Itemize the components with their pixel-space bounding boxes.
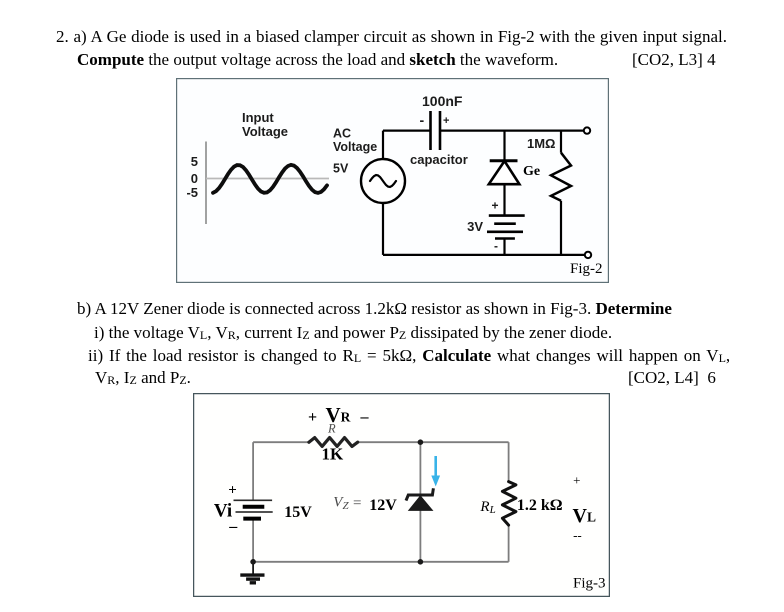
svg-text:+: + — [573, 473, 580, 488]
zener diode triangle — [409, 496, 433, 510]
wire left branch upper — [252, 442, 254, 500]
svg-text:1K: 1K — [322, 445, 345, 464]
ground bars — [240, 575, 264, 583]
svg-text:Input: Input — [242, 110, 274, 125]
zener diode bar — [406, 488, 433, 500]
wire AC source top to rail corner — [382, 131, 384, 159]
svg-text:AC: AC — [333, 127, 351, 141]
wire resistor branch bottom — [560, 201, 562, 255]
input signal zero line — [206, 178, 329, 180]
output terminal bottom — [585, 252, 591, 258]
wire diode to battery — [503, 184, 505, 216]
AC source V1 circle — [361, 159, 405, 203]
wire load branch bottom — [508, 525, 510, 562]
wire diode branch top — [503, 131, 505, 161]
svg-text:3V: 3V — [467, 219, 483, 234]
fig-3 frame — [194, 394, 610, 597]
capacitor C1 plates — [431, 111, 441, 150]
wire left branch lower — [252, 519, 254, 562]
svg-text:R: R — [327, 421, 336, 435]
AC source sine symbol — [370, 175, 396, 187]
svg-text:12V: 12V — [369, 497, 397, 514]
marks a — [632, 50, 716, 70]
svg-text:0: 0 — [191, 171, 198, 186]
battery 3V plates — [487, 216, 525, 239]
diode D1 Ge : triangle — [489, 161, 520, 184]
wire load branch top — [508, 442, 510, 481]
svg-text:Fig-3: Fig-3 — [573, 576, 606, 592]
svg-text:-: - — [420, 112, 425, 128]
wire bottom rail — [253, 561, 509, 563]
question 2a text line 2 — [77, 50, 558, 70]
svg-text:+: + — [492, 199, 499, 213]
svg-text:capacitor: capacitor — [410, 152, 468, 167]
junction node bottom (zener) — [418, 559, 424, 565]
svg-text:Fig-2: Fig-2 — [570, 261, 603, 277]
junction node ground — [250, 559, 256, 565]
svg-text:–: – — [228, 518, 238, 535]
svg-text:+: + — [228, 482, 237, 498]
battery Vi plates — [234, 499, 273, 501]
output terminal top — [584, 127, 590, 133]
svg-text:--: -- — [573, 528, 582, 543]
wire top rail left to capacitor — [383, 130, 431, 132]
svg-text:15V: 15V — [284, 504, 312, 521]
wire battery to bottom rail — [503, 239, 505, 255]
question 2b text — [77, 299, 672, 319]
resistor RL zigzag — [502, 482, 516, 525]
wire resistor branch top — [560, 131, 562, 153]
svg-text:-5: -5 — [186, 185, 198, 200]
wire zener branch top — [419, 442, 421, 494]
input signal axis — [205, 142, 207, 225]
svg-text:Ge: Ge — [523, 164, 540, 179]
svg-text:5: 5 — [191, 154, 198, 169]
question 2a text line 1 — [56, 27, 727, 47]
svg-text:Voltage: Voltage — [242, 124, 288, 139]
svg-text:-: - — [494, 239, 498, 253]
marks b — [628, 368, 716, 388]
input signal sine wave — [213, 165, 327, 193]
Figure 3 : zener regulator circuit — [193, 393, 610, 597]
wire bottom rail — [383, 254, 588, 256]
diode D1 Ge : cathode bar — [490, 159, 518, 162]
svg-text:=: = — [353, 496, 361, 512]
svg-text:100nF: 100nF — [422, 93, 463, 109]
junction node top (zener) — [418, 439, 424, 445]
wire capacitor to top-right terminal — [440, 130, 587, 132]
svg-text:Voltage: Voltage — [333, 140, 377, 154]
svg-text:+: + — [443, 115, 449, 127]
ground stub — [252, 562, 254, 575]
svg-text:–: – — [360, 409, 370, 426]
wire top rail left — [253, 441, 309, 443]
svg-text:1.2 kΩ: 1.2 kΩ — [517, 497, 563, 514]
Figure 2 : biased clamper circuit — [176, 78, 609, 283]
svg-text:1MΩ: 1MΩ — [527, 136, 555, 151]
svg-text:+: + — [308, 409, 317, 426]
resistor 1M zigzag — [551, 153, 571, 201]
resistor R 1K zigzag — [309, 438, 358, 447]
wire top rail right — [358, 441, 509, 443]
wire AC source bottom — [382, 204, 384, 255]
zener current arrow (cyan) — [434, 456, 437, 477]
wire zener branch bottom — [419, 510, 421, 561]
svg-text:5V: 5V — [333, 161, 349, 175]
fig-2 frame — [177, 79, 609, 283]
